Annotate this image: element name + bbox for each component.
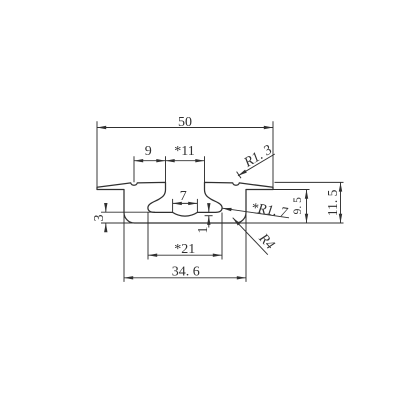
- dim 7 dimension line: [173, 202, 198, 204]
- dim *21 dimension line: [148, 254, 222, 256]
- leader R4: [233, 218, 268, 255]
- bottom line with 3 / 9.5 / 11.5 extensions: [101, 222, 344, 224]
- svg-text:11. 5: 11. 5: [325, 189, 340, 216]
- svg-text:9: 9: [145, 144, 152, 159]
- dim *21 extension lines: [147, 213, 149, 260]
- leader *R1.7: [222, 208, 289, 218]
- dim 11.5 extension line top: [275, 181, 344, 183]
- profile outline of extrusion cross-section: [97, 182, 273, 223]
- dim 9 / *11 extension lines: [133, 156, 135, 182]
- dim 50 extension line left: [96, 121, 98, 189]
- dim 34.6 extension lines: [123, 213, 125, 282]
- svg-text:*21: *21: [174, 242, 195, 257]
- svg-text:R1. 3: R1. 3: [241, 143, 275, 172]
- svg-text:9. 5: 9. 5: [292, 197, 304, 215]
- dim 11.5 dimension line: [340, 182, 342, 223]
- dim 9.5 dimension line: [306, 190, 308, 224]
- dim 3 arrows: [105, 204, 107, 213]
- svg-text:*11: *11: [174, 144, 194, 159]
- svg-text:50: 50: [178, 115, 192, 130]
- svg-text:1: 1: [196, 227, 211, 234]
- leader R1.3: [238, 154, 275, 176]
- dim 1 arrows and tick: [208, 204, 210, 212]
- dim 9 dimension line: [134, 160, 205, 162]
- dim 50 extension line right: [272, 121, 274, 189]
- svg-text:R4: R4: [255, 231, 277, 253]
- svg-text:7: 7: [180, 189, 187, 204]
- dim 50 dimension line: [97, 127, 273, 129]
- svg-text:3: 3: [92, 215, 107, 222]
- dim 34.6 dimension line: [124, 277, 246, 279]
- dim 7 extension lines: [172, 199, 174, 212]
- svg-text:*R1. 7: *R1. 7: [250, 201, 289, 221]
- dim 3 extension line top: [101, 211, 155, 213]
- svg-text:34. 6: 34. 6: [172, 264, 200, 279]
- dim 9.5 extension line top: [246, 189, 310, 191]
